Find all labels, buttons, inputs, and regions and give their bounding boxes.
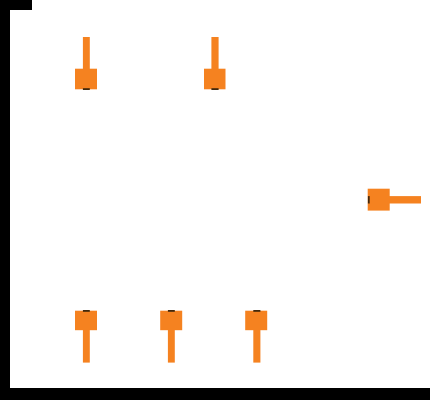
pin 5 (bottom row, middle; orange pad, lead pointing down): [160, 310, 182, 363]
pin 4 (bottom row, left; orange pad, lead pointing down): [75, 310, 97, 363]
wire: symbol body top edge segment (short black bar at top-left corner): [0, 0, 32, 10]
pin 2 (top row, right; orange pad, lead pointing up): [204, 37, 226, 90]
pin 6 (bottom row, right; orange pad, lead pointing down): [245, 310, 267, 363]
pin 1 (top row, left; orange pad, lead pointing up): [75, 37, 97, 90]
wire: symbol body bottom edge (thick black horizontal bar along bottom): [0, 388, 430, 400]
pin 3 (right side; orange pad, lead pointing right): [368, 189, 421, 211]
wire: symbol body left edge (thick black vertical bar along left side): [0, 0, 10, 400]
